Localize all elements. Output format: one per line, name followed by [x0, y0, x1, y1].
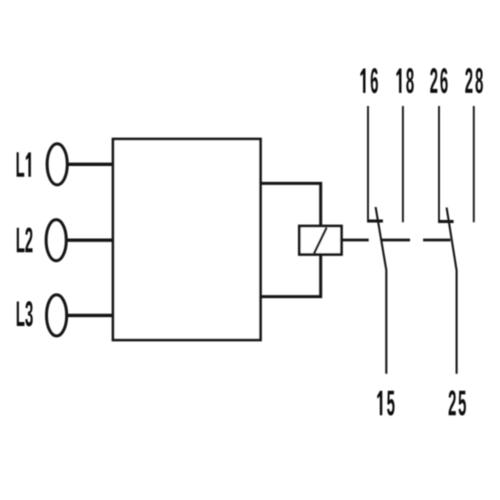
wire box to relay (bottom lead): [261, 255, 321, 297]
terminal 28 line: [473, 106, 475, 222]
contact blade 15: [376, 207, 387, 374]
terminal L3: [47, 295, 115, 336]
wire box to relay (top lead): [261, 183, 321, 226]
terminal L2: [46, 220, 114, 261]
contact blade 25: [447, 208, 457, 374]
label 26: [430, 68, 447, 93]
wire L3 to box: [67, 314, 115, 317]
terminal 18 line: [402, 106, 404, 222]
label 15: [377, 391, 394, 416]
contact 16 foot: [367, 219, 383, 222]
wire relay output: [342, 239, 369, 242]
label L1: [17, 152, 31, 176]
label L2: [17, 227, 33, 252]
label 28: [465, 68, 483, 93]
relay coil K1: [299, 226, 341, 255]
label 16: [360, 68, 378, 93]
terminal L1: [47, 144, 114, 185]
wire L1 to box: [67, 163, 114, 166]
label 25: [449, 390, 466, 415]
mechanical linkage dash 2: [423, 239, 450, 242]
terminal 26 line: [438, 106, 440, 222]
mechanical linkage dash 1: [381, 239, 410, 242]
wire L2 to box: [66, 238, 114, 241]
terminal 16 line: [367, 106, 369, 221]
label 18: [396, 68, 413, 93]
contact 26 foot: [438, 220, 454, 223]
device box U1: [113, 139, 261, 340]
label L3: [17, 301, 33, 326]
